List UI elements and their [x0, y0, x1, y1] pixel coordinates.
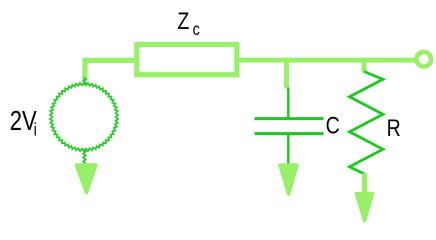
wire stub: bus to capacitor [284, 60, 289, 89]
svg-text:C: C [326, 112, 340, 140]
wire from source to impedance box (L-shape) [85, 60, 136, 81]
wire: output bus from box to terminal [238, 58, 416, 63]
voltage source bottom lead (squiggle) [83, 150, 86, 164]
svg-text:c: c [193, 20, 200, 40]
svg-text:Z: Z [177, 7, 189, 35]
capacitor C1 bottom plate [255, 132, 324, 135]
label subscript c [193, 20, 200, 40]
ground arrow below resistor [357, 194, 373, 221]
wire stub: bus to resistor [362, 60, 367, 73]
resistor R1 zigzag [350, 72, 384, 175]
ground arrow below source [77, 165, 97, 193]
label C [326, 112, 340, 140]
svg-text:R: R [387, 114, 401, 142]
voltage source top lead (squiggle) [83, 78, 86, 85]
label 2V [10, 106, 37, 137]
label subscript i [34, 120, 37, 140]
capacitor C1 top plate [255, 117, 324, 120]
voltage source circle (squiggle) [50, 83, 118, 151]
impedance box Z_c [137, 45, 237, 75]
output terminal ring [417, 52, 432, 67]
label Z [177, 7, 189, 35]
capacitor C1 bottom lead [287, 135, 289, 164]
label R [387, 114, 401, 142]
capacitor C1 top lead [287, 88, 289, 118]
wire stub: resistor to ground [362, 174, 367, 193]
svg-text:i: i [34, 120, 37, 140]
ground arrow below capacitor [280, 165, 297, 194]
